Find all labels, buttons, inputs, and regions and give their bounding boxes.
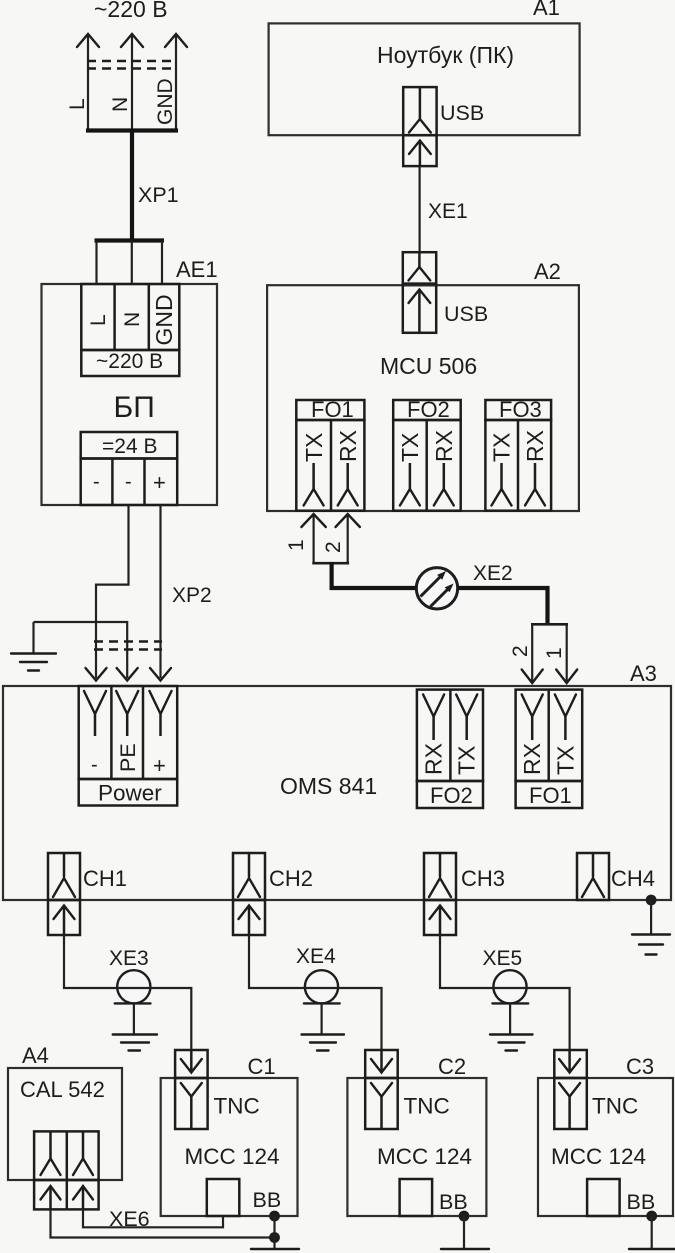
svg-text:XE4: XE4 bbox=[296, 945, 336, 968]
label XE2 bbox=[473, 562, 513, 585]
label pin 1 bbox=[285, 539, 308, 551]
connector XP1 wire bbox=[130, 130, 134, 241]
label Noutbuk (PK) bbox=[377, 42, 514, 68]
sensor C3 box bbox=[538, 1078, 673, 1216]
label BB at C3 bbox=[627, 1190, 656, 1214]
BB box at C2 bbox=[400, 1179, 433, 1216]
cable screen dashed marks bbox=[87, 61, 177, 69]
svg-text:ВВ: ВВ bbox=[627, 1190, 656, 1214]
connector CH2 plug bbox=[233, 900, 265, 935]
svg-text:A2: A2 bbox=[534, 259, 561, 284]
svg-text:RX: RX bbox=[431, 430, 457, 462]
svg-text:C2: C2 bbox=[438, 1054, 466, 1079]
wire CH1 to XE3 bbox=[64, 935, 117, 988]
svg-text:CH3: CH3 bbox=[461, 866, 505, 891]
coax connector XE3 circle bbox=[115, 970, 151, 1003]
svg-text:TNC: TNC bbox=[214, 1094, 260, 1119]
svg-text:XP1: XP1 bbox=[138, 183, 179, 207]
connector CH1 socket bbox=[48, 853, 80, 900]
connector TNC plug at C2 bbox=[365, 1050, 398, 1078]
svg-text:~220 В: ~220 В bbox=[96, 350, 163, 373]
XP1 bracket bbox=[95, 238, 165, 242]
connector USB socket at A1 bbox=[403, 87, 436, 135]
svg-text:CAL 542: CAL 542 bbox=[20, 1077, 105, 1102]
BB box at C1 bbox=[207, 1179, 240, 1216]
ground symbol at C1 bbox=[251, 1248, 299, 1250]
svg-text:2: 2 bbox=[509, 645, 532, 657]
svg-text:+: + bbox=[153, 470, 166, 495]
svg-text:TX: TX bbox=[397, 433, 423, 462]
connector CH3 plug bbox=[424, 900, 456, 935]
wire mains L with arrow bbox=[77, 34, 99, 131]
svg-text:MCC 124: MCC 124 bbox=[551, 1144, 646, 1169]
label CH1 bbox=[83, 866, 127, 891]
XP2 cable screen dashed marks bbox=[94, 642, 162, 650]
svg-text:XP2: XP2 bbox=[172, 584, 212, 607]
connector CH2 socket bbox=[233, 853, 265, 900]
connector FO3 of A2 bbox=[485, 397, 551, 511]
label MCU 506 bbox=[380, 353, 477, 379]
svg-text:+: + bbox=[153, 753, 166, 778]
label XE6 bbox=[109, 1207, 150, 1231]
connector Power of A3 bbox=[79, 686, 178, 806]
label TNC at C1 bbox=[214, 1094, 260, 1119]
wire mains N with arrow bbox=[121, 34, 143, 131]
svg-text:A1: A1 bbox=[533, 0, 560, 20]
AE1 output terminal block - - + bbox=[81, 459, 178, 506]
svg-text:A3: A3 bbox=[630, 661, 657, 686]
connector CH3 socket bbox=[424, 853, 456, 900]
svg-text:ВВ: ВВ bbox=[253, 1188, 282, 1212]
label C3 bbox=[626, 1054, 654, 1079]
connector TNC socket at C2 bbox=[365, 1078, 398, 1129]
connector USB socket above A2 bbox=[403, 252, 436, 285]
svg-text:AE1: AE1 bbox=[176, 257, 218, 282]
label pin 2 bbox=[322, 541, 345, 553]
junction dot C2 case bbox=[459, 1211, 470, 1222]
OMS 841 A3 box bbox=[3, 686, 671, 900]
wire A3 case to ground bbox=[650, 900, 652, 934]
label MCC 124 at C2 bbox=[377, 1144, 472, 1169]
wire XE2 to A3 FO1 bbox=[458, 588, 548, 624]
ground symbol at C3 bbox=[629, 1248, 675, 1250]
ground symbol at XE4 bbox=[302, 1003, 345, 1050]
svg-text:RX: RX bbox=[421, 743, 447, 775]
ground symbol at XE3 bbox=[113, 1003, 157, 1050]
label XP1 bbox=[138, 183, 179, 207]
connector CH4 socket bbox=[577, 853, 609, 900]
svg-text:A4: A4 bbox=[22, 1043, 49, 1068]
plug pin 2 into A2 FO1 RX bbox=[336, 514, 360, 563]
label XE5 bbox=[483, 947, 523, 970]
connector FO2 of A3 bbox=[417, 690, 483, 808]
svg-text:2: 2 bbox=[322, 541, 345, 553]
ground symbol at A3 case bbox=[632, 935, 670, 955]
svg-text:TNC: TNC bbox=[404, 1094, 450, 1119]
label XE3 bbox=[109, 947, 149, 970]
label MCC 124 at C3 bbox=[551, 1144, 646, 1169]
wire C1 to ground bbox=[273, 1216, 275, 1249]
svg-text:CH4: CH4 bbox=[611, 866, 655, 891]
label TNC at C3 bbox=[592, 1094, 638, 1119]
svg-text:Power: Power bbox=[98, 781, 162, 806]
optical connector XE2 circle bbox=[416, 568, 457, 609]
plug pin 1 into A3 FO1 TX bbox=[556, 624, 577, 683]
AE1 ~220V terminal label box bbox=[81, 350, 179, 376]
svg-text:PE: PE bbox=[116, 743, 140, 772]
svg-text:XE2: XE2 bbox=[473, 562, 513, 585]
wire XE2 thick run bbox=[332, 562, 416, 588]
svg-text:GND: GND bbox=[151, 294, 177, 345]
label CH2 bbox=[269, 866, 313, 891]
label CH4 bbox=[611, 866, 655, 891]
svg-text:GND: GND bbox=[154, 78, 177, 125]
connector USB plug inside A2 bbox=[403, 284, 436, 333]
label CH3 bbox=[461, 866, 505, 891]
connector CH1 plug bbox=[48, 900, 80, 935]
connector FO1 of A2 bbox=[296, 397, 364, 511]
calibrator A4 box bbox=[8, 1068, 122, 1180]
label A1 bbox=[533, 0, 560, 20]
svg-text:FO2: FO2 bbox=[407, 397, 450, 422]
plug pin 2 into A3 FO1 RX bbox=[522, 624, 543, 683]
svg-text:-: - bbox=[93, 471, 100, 493]
svg-text:MCU 506: MCU 506 bbox=[380, 353, 477, 379]
wire C3 to ground bbox=[651, 1216, 653, 1249]
label A4 bbox=[22, 1043, 49, 1068]
label A3 bbox=[630, 661, 657, 686]
svg-text:USB: USB bbox=[440, 101, 484, 125]
connector USB plug below A1 bbox=[403, 135, 436, 166]
connector TNC socket at C3 bbox=[554, 1078, 587, 1129]
svg-text:TNC: TNC bbox=[592, 1094, 638, 1119]
svg-text:XE5: XE5 bbox=[483, 947, 523, 970]
svg-text:MCC 124: MCC 124 bbox=[185, 1144, 280, 1169]
label XP2 bbox=[172, 584, 212, 607]
label MCC 124 at C1 bbox=[185, 1144, 280, 1169]
svg-text:CH2: CH2 bbox=[269, 866, 313, 891]
svg-text:RX: RX bbox=[519, 743, 545, 775]
svg-text:TX: TX bbox=[552, 746, 578, 775]
connector TNC plug at C1 bbox=[175, 1050, 208, 1078]
wire C2 to ground bbox=[463, 1216, 465, 1249]
svg-text:RX: RX bbox=[335, 430, 361, 462]
junction dot C1 case bbox=[269, 1211, 280, 1222]
label USB at A2 bbox=[444, 302, 488, 326]
svg-text:1: 1 bbox=[543, 647, 566, 659]
wire minus from BP to Power bbox=[86, 505, 129, 681]
svg-text:N: N bbox=[109, 97, 132, 112]
svg-text:XE3: XE3 bbox=[109, 947, 149, 970]
label BP (power supply) bbox=[114, 391, 155, 424]
svg-text:C1: C1 bbox=[248, 1054, 276, 1079]
svg-text:ВВ: ВВ bbox=[439, 1190, 468, 1214]
wire plus from BP to Power bbox=[150, 505, 171, 681]
wire PE from ground to Power bbox=[34, 622, 138, 681]
wire XE1 bbox=[419, 166, 421, 252]
svg-text:N: N bbox=[121, 312, 144, 327]
svg-text:L: L bbox=[66, 98, 89, 110]
coax connector XE5 circle bbox=[492, 970, 528, 1003]
wire CH3 to XE5 bbox=[440, 935, 494, 988]
wire N into AE1 bbox=[131, 241, 133, 286]
ground symbol at XE5 bbox=[490, 1003, 533, 1050]
svg-text:TX: TX bbox=[454, 746, 480, 775]
label BB at C1 bbox=[253, 1188, 282, 1212]
connector TNC socket at C1 bbox=[175, 1078, 208, 1129]
label pin 1 lower bbox=[543, 647, 566, 659]
connector FO2 of A2 bbox=[393, 397, 461, 511]
MCU 506 A2 box bbox=[267, 285, 579, 511]
svg-text:-: - bbox=[91, 754, 98, 776]
wire XE4 to C2 TNC bbox=[338, 988, 381, 1052]
label pin 2 lower bbox=[509, 645, 532, 657]
svg-text:=24 В: =24 В bbox=[102, 435, 157, 458]
connector FO1 of A3 bbox=[516, 690, 583, 808]
svg-text:FO3: FO3 bbox=[499, 397, 542, 422]
svg-text:C3: C3 bbox=[626, 1054, 654, 1079]
AE1 input terminal block L/N/GND bbox=[81, 284, 179, 350]
connector A4 plug pair XE6 bbox=[34, 1180, 99, 1209]
label A2 bbox=[534, 259, 561, 284]
svg-text:БП: БП bbox=[114, 391, 155, 424]
wire L into AE1 bbox=[95, 241, 97, 286]
label USB at A1 bbox=[440, 101, 484, 125]
sensor C2 box bbox=[347, 1078, 486, 1216]
label AE1 bbox=[176, 257, 218, 282]
XE2 cable upper bracket bbox=[312, 562, 349, 565]
label C2 bbox=[438, 1054, 466, 1079]
label XE4 bbox=[296, 945, 336, 968]
wire GND into AE1 bbox=[161, 241, 163, 286]
svg-text:FO2: FO2 bbox=[430, 783, 473, 808]
laptop A1 box bbox=[269, 23, 580, 135]
connector TNC plug at C3 bbox=[554, 1050, 587, 1078]
junction dot at A3 case bbox=[646, 895, 657, 906]
XE2 cable lower bracket bbox=[531, 623, 568, 626]
wire XE6 to C1 BB bbox=[83, 1209, 223, 1227]
net ~220V mains label bbox=[94, 0, 168, 22]
connector A4 output socket pair bbox=[34, 1131, 99, 1180]
svg-text:MCC 124: MCC 124 bbox=[377, 1144, 472, 1169]
ground symbol at C2 bbox=[441, 1248, 489, 1250]
svg-text:OMS 841: OMS 841 bbox=[280, 773, 377, 799]
svg-text:FO1: FO1 bbox=[529, 783, 572, 808]
svg-text:USB: USB bbox=[444, 302, 488, 326]
mains bus bar bbox=[86, 128, 178, 132]
AE1 =24V terminal label box bbox=[81, 432, 178, 459]
label L bbox=[66, 98, 89, 110]
label TNC at C2 bbox=[404, 1094, 450, 1119]
ground symbol at XP2 bbox=[11, 622, 56, 671]
svg-text:RX: RX bbox=[522, 430, 548, 462]
junction dot C1 ground bbox=[269, 1232, 280, 1243]
label OMS 841 bbox=[280, 773, 377, 799]
svg-text:CH1: CH1 bbox=[83, 866, 127, 891]
power supply AE1 box bbox=[42, 284, 218, 505]
svg-text:FO1: FO1 bbox=[311, 397, 354, 422]
wire CH2 to XE4 bbox=[249, 935, 305, 988]
svg-text:TX: TX bbox=[489, 433, 515, 462]
plug pin 1 into A2 FO1 TX bbox=[301, 514, 325, 563]
coax connector XE4 circle bbox=[304, 970, 340, 1003]
svg-text:1: 1 bbox=[285, 539, 308, 551]
label BB at C2 bbox=[439, 1190, 468, 1214]
svg-text:~220 В: ~220 В bbox=[94, 0, 168, 22]
svg-text:-: - bbox=[125, 471, 132, 493]
sensor C1 box bbox=[161, 1078, 298, 1216]
label N bbox=[109, 97, 132, 112]
label GND bbox=[154, 78, 177, 125]
label CAL 542 bbox=[20, 1077, 105, 1102]
wire XE6 to C1 ground bbox=[51, 1209, 275, 1237]
svg-text:Ноутбук (ПК): Ноутбук (ПК) bbox=[377, 42, 514, 68]
label C1 bbox=[248, 1054, 276, 1079]
BB box at C3 bbox=[587, 1179, 620, 1216]
wire XE3 to C1 TNC bbox=[150, 988, 191, 1050]
label XE1 bbox=[428, 200, 468, 223]
junction dot C3 case bbox=[646, 1211, 657, 1222]
svg-text:TX: TX bbox=[301, 433, 327, 462]
wire mains GND with arrow bbox=[165, 34, 187, 131]
wire XE5 to C3 TNC bbox=[527, 988, 570, 1052]
svg-text:L: L bbox=[87, 314, 110, 326]
svg-text:XE1: XE1 bbox=[428, 200, 468, 223]
